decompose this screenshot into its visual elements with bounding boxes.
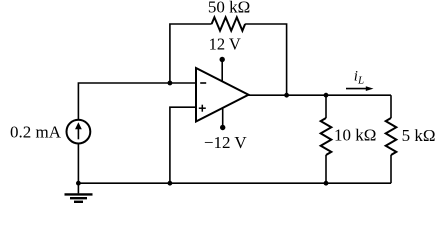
wire: 10k branch top xyxy=(325,95,327,118)
wire: feedback left riser xyxy=(170,24,212,83)
label 50 kOhm xyxy=(208,0,250,17)
op-amp positive supply pin with dot xyxy=(220,57,225,82)
wire: 5k branch bottom xyxy=(390,155,392,183)
resistor 50 kOhm zigzag xyxy=(212,17,246,30)
svg-text:10 kΩ: 10 kΩ xyxy=(334,126,376,145)
svg-text:0.2 mA: 0.2 mA xyxy=(10,123,62,142)
wire: 10k branch bottom xyxy=(325,155,327,183)
label 12 V xyxy=(209,35,241,54)
junction dot: plus input at bottom rail xyxy=(168,181,173,186)
junction dot: 10k bottom xyxy=(324,181,329,186)
label -12 V xyxy=(204,133,248,152)
label 10 kOhm xyxy=(334,126,376,145)
ground symbol xyxy=(65,183,93,202)
node A junction dot (inverting input node) xyxy=(168,81,173,86)
label i_L xyxy=(354,68,364,86)
resistor 10 kOhm zigzag xyxy=(321,118,332,155)
junction dot: output / 10k branch xyxy=(324,93,329,98)
label 0.2 mA xyxy=(10,123,62,142)
wire: op-amp output xyxy=(249,94,392,96)
junction dot: ground node xyxy=(76,181,81,186)
wire: current source top to inverting input xyxy=(78,83,195,120)
op-amp negative supply pin with dot xyxy=(220,108,225,130)
current arrow i_L xyxy=(346,86,374,91)
wire: feedback top right and drop to output xyxy=(245,24,287,95)
wire: bottom rail xyxy=(78,182,391,184)
op-amp inverting input minus sign xyxy=(200,82,206,84)
svg-text:50 kΩ: 50 kΩ xyxy=(208,0,250,17)
current source I1 0.2 mA xyxy=(67,120,91,144)
svg-text:5 kΩ: 5 kΩ xyxy=(402,126,436,145)
wire: 5k branch top xyxy=(390,95,392,118)
wire: current source bottom xyxy=(77,144,79,184)
op-amp U1 triangle xyxy=(196,68,249,122)
junction dot: output / feedback xyxy=(284,93,289,98)
wire: non-inverting input to bottom rail xyxy=(170,107,195,183)
svg-text:12 V: 12 V xyxy=(209,35,241,54)
label 5 kOhm xyxy=(402,126,436,145)
op-amp non-inverting input plus sign xyxy=(199,105,206,112)
svg-text:−12 V: −12 V xyxy=(204,133,248,152)
resistor 5 kOhm zigzag xyxy=(386,118,397,155)
